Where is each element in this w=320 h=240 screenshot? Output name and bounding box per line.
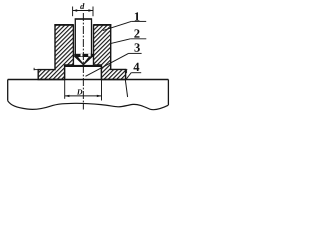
label 4 <box>133 63 139 71</box>
plate (item 4) <box>8 80 169 106</box>
plate wavy break bottom <box>8 101 169 110</box>
cone tip V <box>75 57 93 66</box>
leader 4 <box>125 73 141 81</box>
rod bottom thick band <box>74 54 93 57</box>
punch rod R (item 1) <box>75 19 91 55</box>
rod top edge emphasized <box>75 18 92 20</box>
leader 1 <box>103 21 146 30</box>
slug (item 3) side edges <box>65 67 102 80</box>
die block left (item 2 left half) <box>38 25 73 80</box>
flange top overshoot left <box>34 68 38 71</box>
flange top overshoot right <box>126 69 128 73</box>
centerline (axis) <box>82 13 84 110</box>
label 3 <box>134 43 139 51</box>
dimension d <box>73 7 93 17</box>
label 2 <box>134 29 139 37</box>
steep break line in plate near flange right <box>125 80 127 97</box>
label D <box>77 89 83 94</box>
leader 2 <box>111 39 146 44</box>
dimension D <box>65 80 102 101</box>
label d <box>80 3 84 9</box>
die block right (item 2 right half) <box>94 25 126 80</box>
label 1 <box>135 12 140 20</box>
leader 3 <box>86 53 142 76</box>
die top edges emphasized <box>54 24 111 26</box>
cavity lip thick line <box>65 65 102 67</box>
